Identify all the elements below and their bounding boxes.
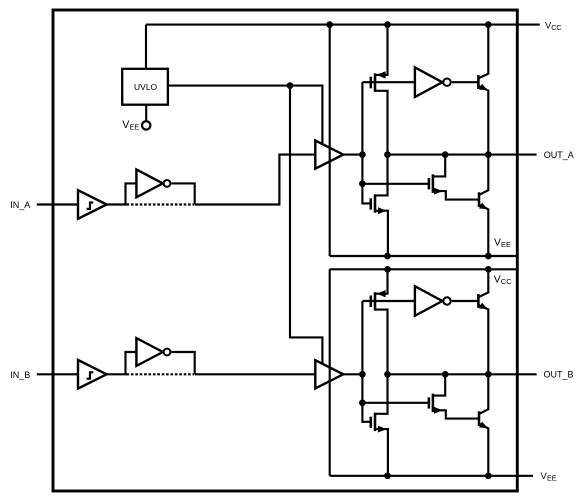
npn source-follower transistor (channel A) bbox=[478, 25, 488, 155]
wire UVLO output to driver B enable bbox=[290, 86, 322, 364]
svg-text:IN_A: IN_A bbox=[10, 200, 30, 210]
node OUT_A / nmos drain bbox=[442, 151, 449, 158]
label VCC inside cell B bbox=[494, 274, 512, 286]
wire VCC top rail bbox=[146, 24, 540, 26]
wire UVLO output to driver A enable bbox=[168, 86, 323, 145]
svg-text:V: V bbox=[494, 237, 501, 248]
pin VEE open circle bbox=[142, 121, 150, 129]
pin label VEE (UVLO) bbox=[122, 119, 139, 131]
wire gate net A to current-limit nmos gate bbox=[362, 183, 429, 185]
svg-text:CC: CC bbox=[501, 277, 512, 286]
schmitt trigger input buffer (channel B) bbox=[78, 360, 107, 389]
wire inverter A output return bbox=[171, 183, 194, 204]
IC boundary bbox=[53, 10, 517, 491]
svg-text:OUT_B: OUT_B bbox=[544, 370, 574, 380]
node VEE A / nmos source bbox=[384, 253, 391, 260]
wire inverter output to npn base (channel A) bbox=[452, 81, 479, 83]
node VCC / cell A corner bbox=[326, 21, 333, 28]
pmos pull-up transistor (channel B) bbox=[371, 269, 388, 374]
wire gate net B to current-limit nmos gate bbox=[362, 402, 429, 404]
wire inverter B output return bbox=[171, 352, 194, 374]
nmos current-limit transistor (channel B) bbox=[429, 374, 479, 418]
node OUT_B / drains bbox=[384, 371, 391, 378]
wire inverter A input riser bbox=[126, 183, 137, 204]
wire IN_B to driver B bbox=[195, 373, 316, 375]
node VCC / pmos A source bbox=[384, 21, 391, 28]
node gate net B at nmos gate row bbox=[359, 399, 366, 406]
wire schmitt A output bbox=[107, 203, 127, 205]
pmos pull-up transistor (channel A) bbox=[371, 25, 388, 155]
label VEE inside cell A bbox=[494, 237, 511, 249]
node gate net A at nmos gate row bbox=[359, 180, 366, 187]
node VEE B / nmos source bbox=[384, 472, 391, 479]
svg-text:EE: EE bbox=[547, 473, 557, 482]
schmitt trigger input buffer (channel A) bbox=[78, 190, 107, 219]
wire IN_A to driver A bbox=[195, 155, 316, 205]
node VCC B / pmos source bbox=[384, 266, 391, 273]
wire VEE rail of cell A bbox=[330, 255, 518, 257]
wire UVLO to VEE pin bbox=[145, 105, 147, 122]
wire dashed bypass (channel B) bbox=[127, 373, 195, 375]
svg-text:UVLO: UVLO bbox=[134, 82, 158, 92]
nmos pull-down transistor (channel B) bbox=[371, 374, 388, 476]
inverter driving npn (channel B) bbox=[415, 286, 451, 316]
wire VEE rail of cell B / VEE pin bbox=[330, 475, 533, 477]
wire IN_A input bbox=[37, 203, 78, 205]
pin label VEE bbox=[541, 471, 557, 482]
node UVLO output branch bbox=[287, 82, 294, 89]
node gate net B at driver output bbox=[359, 371, 366, 378]
npn source-follower transistor (channel B) bbox=[478, 269, 488, 374]
wire dashed bypass (channel A) bbox=[127, 203, 195, 205]
wire VCC rail of cell B bbox=[330, 268, 518, 270]
svg-text:EE: EE bbox=[130, 122, 140, 131]
npn pull-down transistor (channel A) bbox=[479, 155, 488, 256]
npn pull-down transistor (channel B) bbox=[479, 374, 488, 476]
UVLO block bbox=[122, 69, 168, 105]
cell A box left edge bbox=[329, 25, 331, 256]
node OUT_A / drains bbox=[384, 151, 391, 158]
node VCC B / npn collector bbox=[485, 266, 492, 273]
wire pmos A gate row to inverter input bbox=[362, 81, 415, 83]
pin label VCC bbox=[545, 21, 561, 32]
inverter option (channel B) bbox=[136, 338, 170, 366]
svg-text:CC: CC bbox=[551, 25, 561, 32]
svg-text:V: V bbox=[494, 274, 501, 285]
node gate net A at driver output bbox=[359, 151, 366, 158]
wire OUT_A bbox=[388, 154, 537, 156]
wire gate net A vertical bbox=[362, 82, 370, 203]
output driver buffer (channel B) bbox=[315, 360, 343, 388]
wire driver B output to gate net bbox=[343, 373, 362, 375]
wire driver A output to gate net bbox=[343, 154, 362, 156]
node OUT_B / npn emitters bbox=[485, 371, 492, 378]
inverter driving npn (channel A) bbox=[415, 67, 451, 97]
wire gate net B vertical bbox=[362, 301, 370, 422]
cell B box left edge bbox=[329, 269, 331, 476]
svg-text:EE: EE bbox=[501, 240, 511, 249]
node OUT_B / nmos drain bbox=[442, 371, 449, 378]
node VEE B / npn emitter bbox=[485, 472, 492, 479]
node VEE A / npn emitter bbox=[485, 253, 492, 260]
wire inverter output to npn base (channel B) bbox=[452, 300, 479, 302]
node VCC / npn A collector bbox=[485, 21, 492, 28]
wire UVLO to VCC rail bbox=[145, 25, 147, 69]
inverter option (channel A) bbox=[136, 170, 170, 198]
svg-text:OUT_A: OUT_A bbox=[544, 150, 574, 160]
nmos pull-down transistor (channel A) bbox=[371, 155, 388, 256]
svg-text:IN_B: IN_B bbox=[10, 370, 30, 380]
wire OUT_B bbox=[388, 373, 537, 375]
nmos current-limit transistor (channel A) bbox=[429, 155, 479, 200]
node OUT_A / npn emitters bbox=[485, 151, 492, 158]
wire schmitt B output bbox=[107, 373, 127, 375]
wire pmos B gate row to inverter input bbox=[362, 300, 415, 302]
wire inverter B input riser bbox=[126, 352, 137, 374]
wire IN_B input bbox=[37, 373, 78, 375]
output driver buffer (channel A) bbox=[315, 141, 343, 169]
